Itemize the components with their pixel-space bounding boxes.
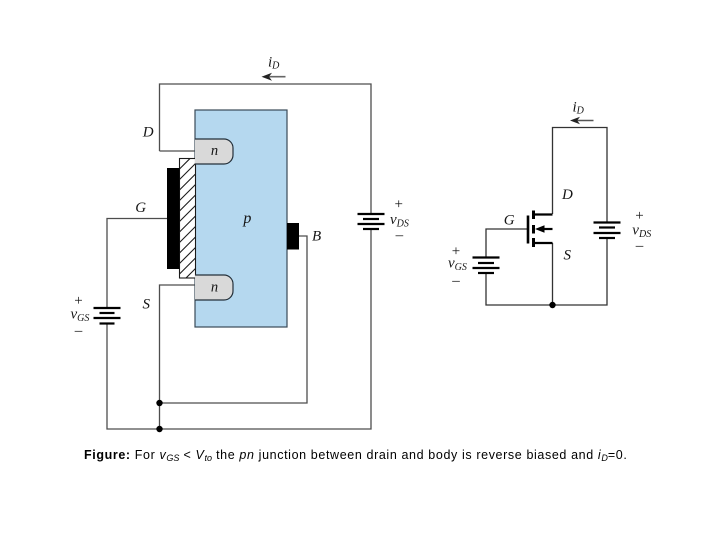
svg-text:G: G [135, 200, 146, 216]
svg-text:–: – [395, 227, 404, 243]
svg-text:–: – [74, 323, 83, 339]
svg-text:iD: iD [268, 55, 280, 72]
svg-text:B: B [312, 229, 321, 245]
svg-text:–: – [635, 238, 644, 254]
svg-text:D: D [561, 187, 573, 203]
svg-text:p: p [242, 210, 251, 227]
svg-text:vGS: vGS [71, 307, 90, 325]
svg-text:n: n [211, 280, 218, 296]
svg-text:S: S [564, 248, 572, 264]
svg-text:+: + [394, 197, 402, 213]
svg-text:D: D [142, 125, 154, 141]
svg-text:G: G [504, 213, 515, 229]
svg-text:–: – [451, 273, 460, 289]
svg-text:iD: iD [573, 100, 585, 117]
svg-text:S: S [143, 297, 151, 313]
svg-text:n: n [211, 143, 218, 159]
